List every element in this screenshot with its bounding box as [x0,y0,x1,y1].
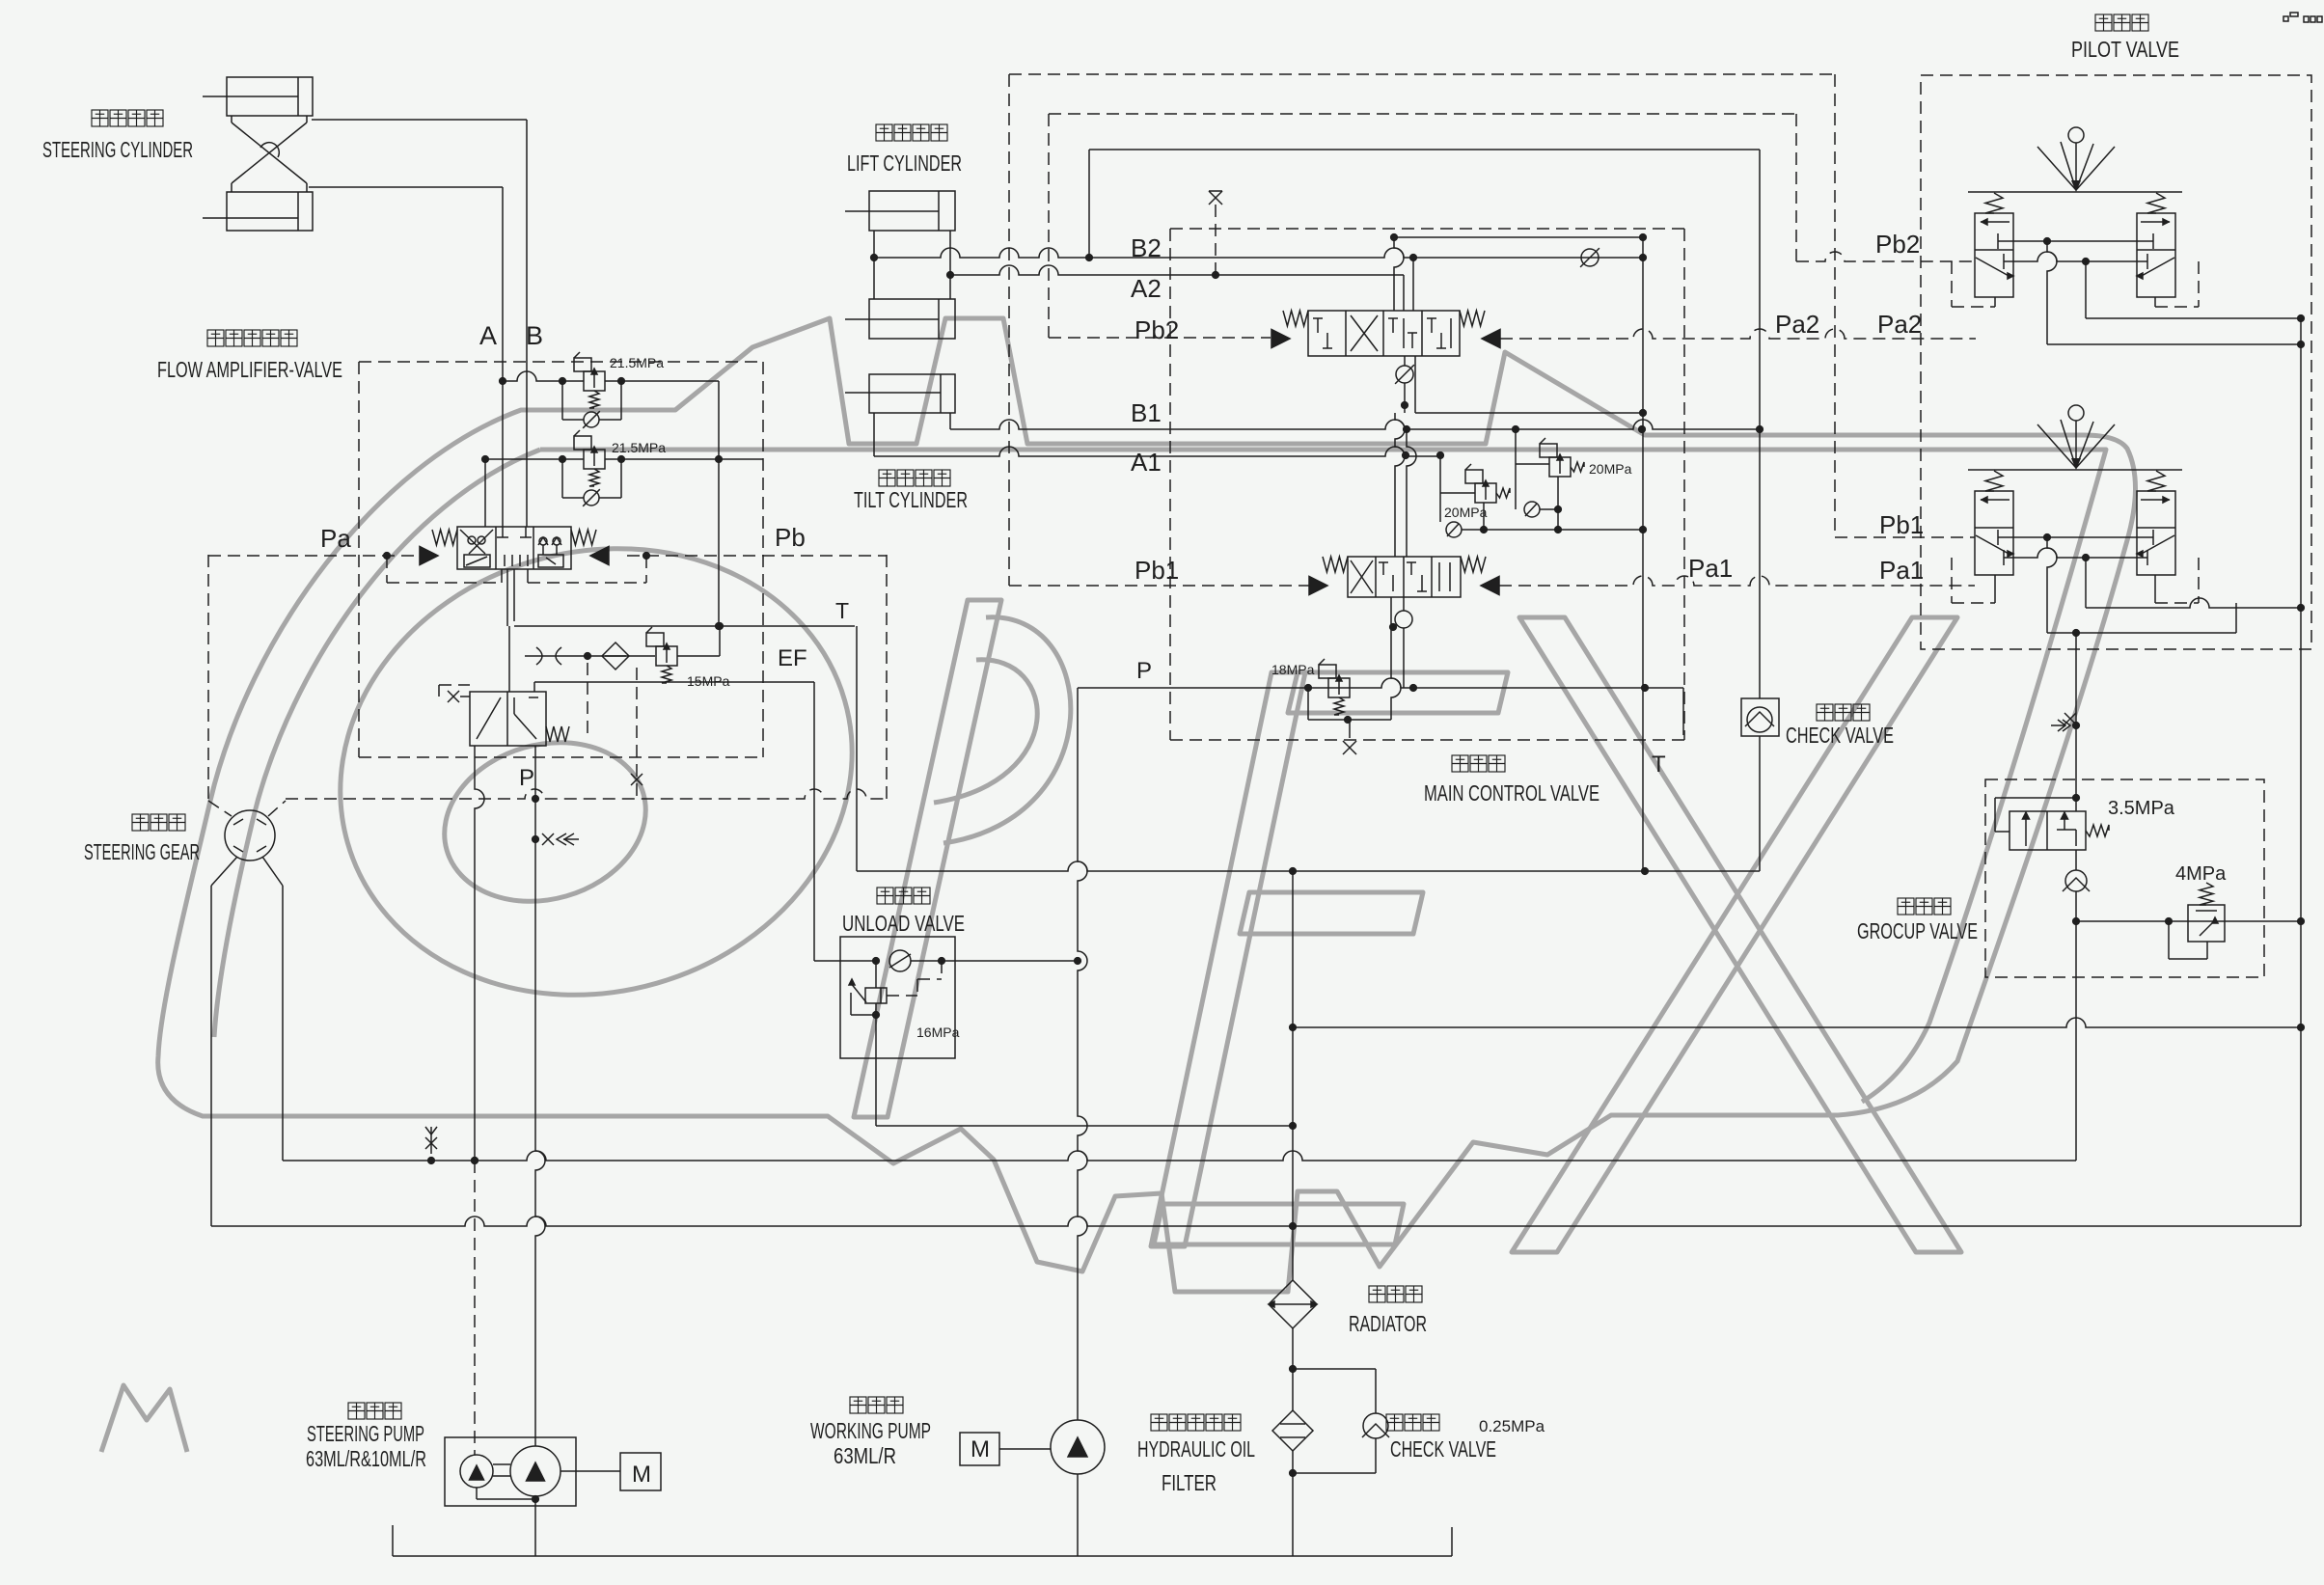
working pump riser [1078,688,1087,1420]
svg-text:RADIATOR: RADIATOR [1349,1311,1427,1336]
flow amp main valve body [457,527,571,569]
steering pump links [493,1463,510,1465]
svg-text:18MPa: 18MPa [1271,662,1315,677]
radiator to filter [1292,1328,1294,1410]
flow amp valve internals [468,536,476,544]
check under lift valve [1404,356,1406,366]
relief valve 21.5MPa upper [584,371,605,391]
flow amp small valve body [470,692,546,746]
wire B cylinder to valve [312,119,527,121]
line A1 [873,413,875,456]
svg-text:3.5MPa: 3.5MPa [2108,798,2175,819]
relief valve 21.5MPa lower [584,450,605,469]
Pb2 pilot line [1049,337,1271,339]
T line [514,625,855,627]
svg-text:Pb: Pb [775,523,806,552]
steering cylinder crossover X [231,116,232,123]
label main control valve cjk [1452,755,1468,772]
group check [2075,850,2077,870]
svg-text:20MPa: 20MPa [1589,461,1632,477]
T return line [856,626,858,871]
T box [1682,688,1684,735]
tilt spool arrows [1309,577,1327,595]
relief 15MPa out to T [677,655,720,657]
check valve bypass 2 [561,459,563,498]
lift spool arrows [1271,330,1290,348]
steering gear dashed drop [207,555,209,801]
svg-text:63ML/R: 63ML/R [834,1443,896,1468]
radiator [1269,1280,1317,1328]
svg-text:Pa1: Pa1 [1879,556,1924,585]
unload input [814,960,840,962]
EF row line [525,655,655,657]
flow amp valve feed ends [502,527,504,537]
P supply riser [535,746,545,1446]
check 20MPa A1 [1446,522,1462,537]
flow amp pilot caps dashed [386,556,388,583]
18MPa bypass [1307,688,1309,720]
steering pump box [445,1437,576,1506]
unload valve box [840,937,955,1058]
relief valve 16MPa [865,988,887,1003]
filter drain [1292,1451,1294,1556]
dashed run Pb1 outer [1008,74,1010,586]
return line y1065 [1293,1018,2301,1027]
tilt cylinder [869,374,955,413]
svg-text:HYDRAULIC OIL: HYDRAULIC OIL [1137,1436,1255,1462]
pilot upper drain 1 [2047,241,2057,344]
check valve on B2 [1581,249,1599,266]
steering cylinder piston rods [203,96,227,97]
wire reliefs to T [718,381,720,626]
plug y1203 [430,1127,432,1154]
Pa pilot line [208,555,420,557]
svg-text:P: P [1136,658,1152,684]
filter bypass check [1293,1368,1376,1370]
filter diamond [602,642,629,670]
flow amp valve arrows [420,547,438,565]
svg-text:Pa2: Pa2 [1775,310,1819,339]
corner icons [2283,16,2288,21]
Pa1 pilot line [1499,576,1975,586]
svg-text:16MPa: 16MPa [916,1025,960,1040]
svg-text:20MPa: 20MPa [1444,505,1488,520]
3.5MPa spring [2086,825,2109,836]
tilt spool body [1348,557,1461,597]
svg-text:LIFT CYLINDER: LIFT CYLINDER [847,150,962,176]
port X plug [448,691,459,702]
P riser dashed [886,555,888,799]
label check valve cjk [1817,704,1833,721]
relief out A1 [1483,503,1485,530]
label lift cylinder cjk [876,124,892,141]
small valve internals [477,697,501,739]
svg-text:T: T [1652,752,1666,778]
tank line y1203 [283,1151,2076,1161]
tank line y1271 [211,1216,2301,1226]
pilot lower line [2047,632,2236,634]
label flow amplifier cjk [207,330,224,346]
svg-text:M: M [632,1462,651,1488]
svg-text:21.5MPa: 21.5MPa [612,440,666,455]
svg-text:CHECK VALVE: CHECK VALVE [1390,1436,1496,1462]
svg-text:B: B [526,321,543,350]
pilot valve dashed box [1921,75,2311,649]
EF drop line [534,681,814,683]
svg-text:T: T [835,598,849,623]
wire relief2 [485,458,584,460]
steering drain right [282,886,284,1161]
pilot upper drain 2 [2085,261,2087,318]
label tilt cylinder cjk [879,470,895,486]
svg-text:Pa1: Pa1 [1688,554,1733,583]
tank line bottom [393,1555,1452,1557]
svg-text:A1: A1 [1131,448,1162,477]
Pb pilot line [627,555,887,557]
svg-text:FILTER: FILTER [1162,1470,1217,1495]
plug at P riser [542,833,554,845]
Pa2 pilot line [1500,329,1976,339]
svg-text:15MPa: 15MPa [687,673,730,689]
relief valve 20MPa B1 [1515,429,1517,509]
relief valve 4MPa [2188,905,2225,942]
relief valve 15MPa [656,646,677,666]
pilot unit lower [1975,491,2013,575]
pilot lower drain 2 [2085,558,2087,608]
svg-text:0.25MPa: 0.25MPa [1479,1417,1545,1435]
line B1 [949,413,951,429]
plug group feed [2064,713,2076,724]
svg-text:Pa2: Pa2 [1877,310,1922,339]
svg-text:4MPa: 4MPa [2175,863,2227,885]
working pump motor [960,1433,999,1465]
svg-text:MAIN CONTROL VALVE: MAIN CONTROL VALVE [1424,780,1599,806]
wire A down [502,381,504,527]
svg-text:A: A [479,321,497,350]
lift cylinder [869,191,955,231]
watermark OPEX gear logo [101,318,2136,1452]
svg-text:B1: B1 [1131,398,1162,427]
lift valve feeds [1394,237,1404,311]
label unload valve cjk [877,888,893,904]
small valve dashed cap [439,684,470,686]
flow amplifier dashed box [359,361,763,363]
svg-text:Pb2: Pb2 [1135,315,1179,344]
label radiator cjk [1369,1286,1385,1302]
working pump drain [1077,1474,1079,1556]
label steering pump cjk [348,1403,365,1419]
wire A cylinder to valve [309,186,503,188]
4MPa line [2076,920,2301,922]
tilt spool springs [1323,557,1348,572]
flow amp valve springs [432,530,457,545]
steering gear circle [225,810,275,861]
line A2 [950,265,1404,275]
lift spool springs [1283,311,1308,326]
svg-text:PILOT VALVE: PILOT VALVE [2071,37,2179,62]
svg-text:GROCUP VALVE: GROCUP VALVE [1857,918,1978,943]
junction line y549 [1462,529,1643,531]
line B2 [874,248,1643,258]
svg-text:UNLOAD VALVE: UNLOAD VALVE [842,911,965,936]
unload valve 3.5MPa body [2010,811,2086,850]
svg-text:WORKING PUMP: WORKING PUMP [810,1418,931,1443]
check valve bypass 1 [561,381,563,420]
svg-text:Pb1: Pb1 [1135,556,1179,585]
label pilot valve cjk [2095,14,2112,31]
plug under 18MPa [1349,720,1351,738]
svg-text:FLOW AMPLIFIER-VALVE: FLOW AMPLIFIER-VALVE [157,357,342,382]
svg-text:M: M [971,1436,990,1462]
svg-text:STEERING CYLINDER: STEERING CYLINDER [42,137,193,162]
svg-text:21.5MPa: 21.5MPa [610,355,664,370]
lift spool body [1308,311,1460,356]
label steering gear cjk [132,814,149,831]
lift spool internals [1317,318,1319,333]
group drain [2075,921,2077,1161]
svg-text:TILT CYLINDER: TILT CYLINDER [854,487,968,512]
Pb2 to pilot [1796,252,1975,261]
group feed [2075,633,2077,811]
plug to A2 [1209,191,1222,205]
P line [1078,678,1683,688]
main valve dashed box [1169,229,1171,740]
steering drain left [210,886,212,1226]
line y246 [1394,236,1643,238]
flow amp valve PT stubs [506,569,508,626]
svg-text:STEERING GEAR: STEERING GEAR [84,839,200,864]
svg-text:63ML/R&10ML/R: 63ML/R&10ML/R [306,1446,426,1471]
3.5MPa internals [2025,815,2027,846]
wire relief1 [503,371,584,381]
small valve spring [546,726,569,742]
check under tilt [1403,597,1405,611]
steering pump motor [620,1453,661,1490]
steering pump large circle [510,1446,560,1496]
tilt spool internals [1351,560,1373,593]
svg-text:EF: EF [778,645,807,671]
radiator riser [1292,871,1294,1280]
steering cylinder body [227,77,313,116]
steering pump small circle [460,1455,493,1488]
relief valve 20MPa A1 [1439,456,1441,522]
lift valve load loop [1414,356,1416,413]
group valve dashed box [1985,779,2264,977]
svg-text:Pb1: Pb1 [1879,510,1924,539]
svg-text:Pb2: Pb2 [1875,230,1920,259]
steering pump drain [534,1496,536,1556]
pilot pump riser [475,746,484,1161]
P supply dashed [286,789,887,799]
label check valve btm cjk [1386,1414,1403,1431]
oil filter [1272,1410,1313,1451]
tilt valve feeds [1395,413,1405,557]
working pump circle [1051,1420,1105,1474]
pilot unit upper [1975,213,2013,297]
Pb1 pilot line [1009,585,1309,587]
label group valve cjk [1898,898,1914,915]
svg-text:A2: A2 [1131,274,1162,303]
unload drain [875,1015,877,1126]
svg-text:STEERING PUMP: STEERING PUMP [307,1421,424,1446]
check valve center [1759,736,1761,871]
dashed run Pb2 inner [1048,114,1050,338]
steering gear drains [211,857,237,886]
unload return y1167 [876,1125,1293,1127]
Pb1 to pilot [1835,536,1975,538]
svg-text:CHECK VALVE: CHECK VALVE [1786,723,1894,748]
plug drain dashed [636,668,638,799]
label oil filter cjk [1151,1414,1167,1431]
throttle symbol [536,647,542,665]
relief valve 18MPa [1328,678,1350,697]
svg-text:Pa: Pa [320,524,351,553]
svg-text:B2: B2 [1131,233,1162,262]
label working pump cjk [850,1397,866,1413]
filter drain dashed [587,663,588,733]
line B2 riser loop [1088,150,1090,258]
svg-text:P: P [519,765,534,791]
3.5MPa pilot loop [1995,797,2076,799]
label steering cylinder cjk [92,110,108,126]
right riser [2300,318,2302,1226]
pilot lower drain 1 [2047,537,2057,633]
